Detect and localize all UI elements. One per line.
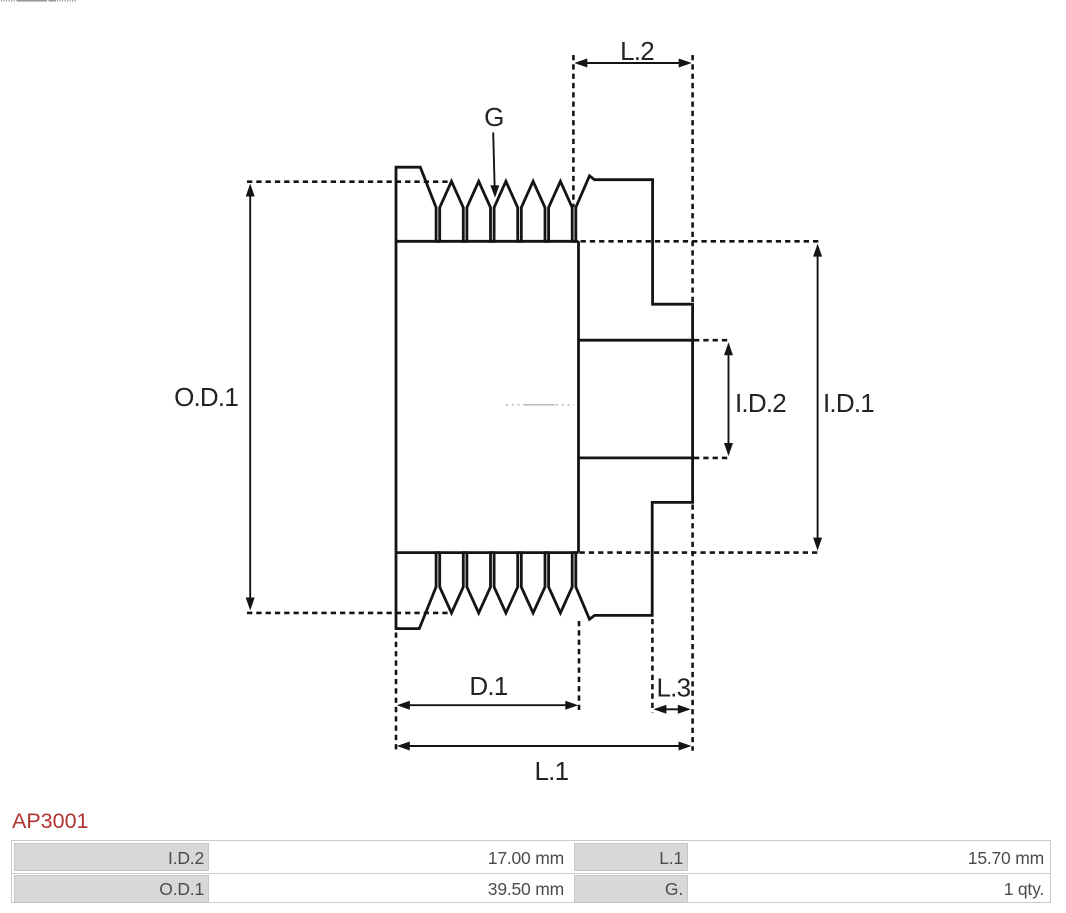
dimension labels: [174, 36, 874, 786]
spec table: [11, 840, 1051, 903]
L.2 left extension: [572, 55, 575, 207]
dimension O.D.1: [249, 195, 251, 599]
svg-text:L.3: L.3: [657, 673, 691, 703]
top edge logo artifact: [1, 0, 76, 2]
svg-text:D.1: D.1: [469, 671, 507, 701]
L.2 / L.1 right extension: [691, 55, 694, 302]
bore top line: [579, 339, 693, 342]
svg-text:L.2: L.2: [620, 36, 654, 66]
body right edge: [577, 241, 580, 552]
I.D.2 top dashed: [694, 339, 731, 342]
body bottom surface line: [396, 551, 579, 554]
dimension D.1: [408, 704, 567, 706]
product code: [12, 809, 89, 834]
svg-text:G: G: [484, 102, 503, 132]
svg-text:I.D.2: I.D.2: [735, 388, 786, 418]
dimension L.3: [664, 708, 680, 710]
svg-text:I.D.1: I.D.1: [823, 388, 874, 418]
D.1 / L.1 left extension: [395, 633, 398, 751]
pulley outline: [396, 167, 693, 628]
I.D.1 top dashed: [581, 240, 821, 243]
L.3 left extension: [651, 619, 654, 712]
dimension I.D.2: [728, 353, 730, 445]
dimension L.2: [586, 62, 680, 64]
I.D.1 bottom dashed: [580, 551, 821, 554]
body top surface line: [396, 240, 579, 243]
G leader arrow: [493, 133, 494, 187]
I.D.2 bottom dashed: [694, 457, 731, 460]
dashed extension lines: [247, 55, 821, 751]
bore bottom line: [579, 456, 693, 459]
dimension I.D.1: [817, 255, 819, 540]
O.D.1 top dashed: [247, 180, 452, 183]
svg-text:L.1: L.1: [535, 756, 569, 786]
svg-text:O.D.1: O.D.1: [174, 382, 238, 412]
O.D.1 bottom dashed: [247, 612, 451, 615]
dimension L.1: [408, 745, 680, 747]
D.1 right extension: [578, 621, 581, 712]
faint centerline: [506, 404, 574, 406]
